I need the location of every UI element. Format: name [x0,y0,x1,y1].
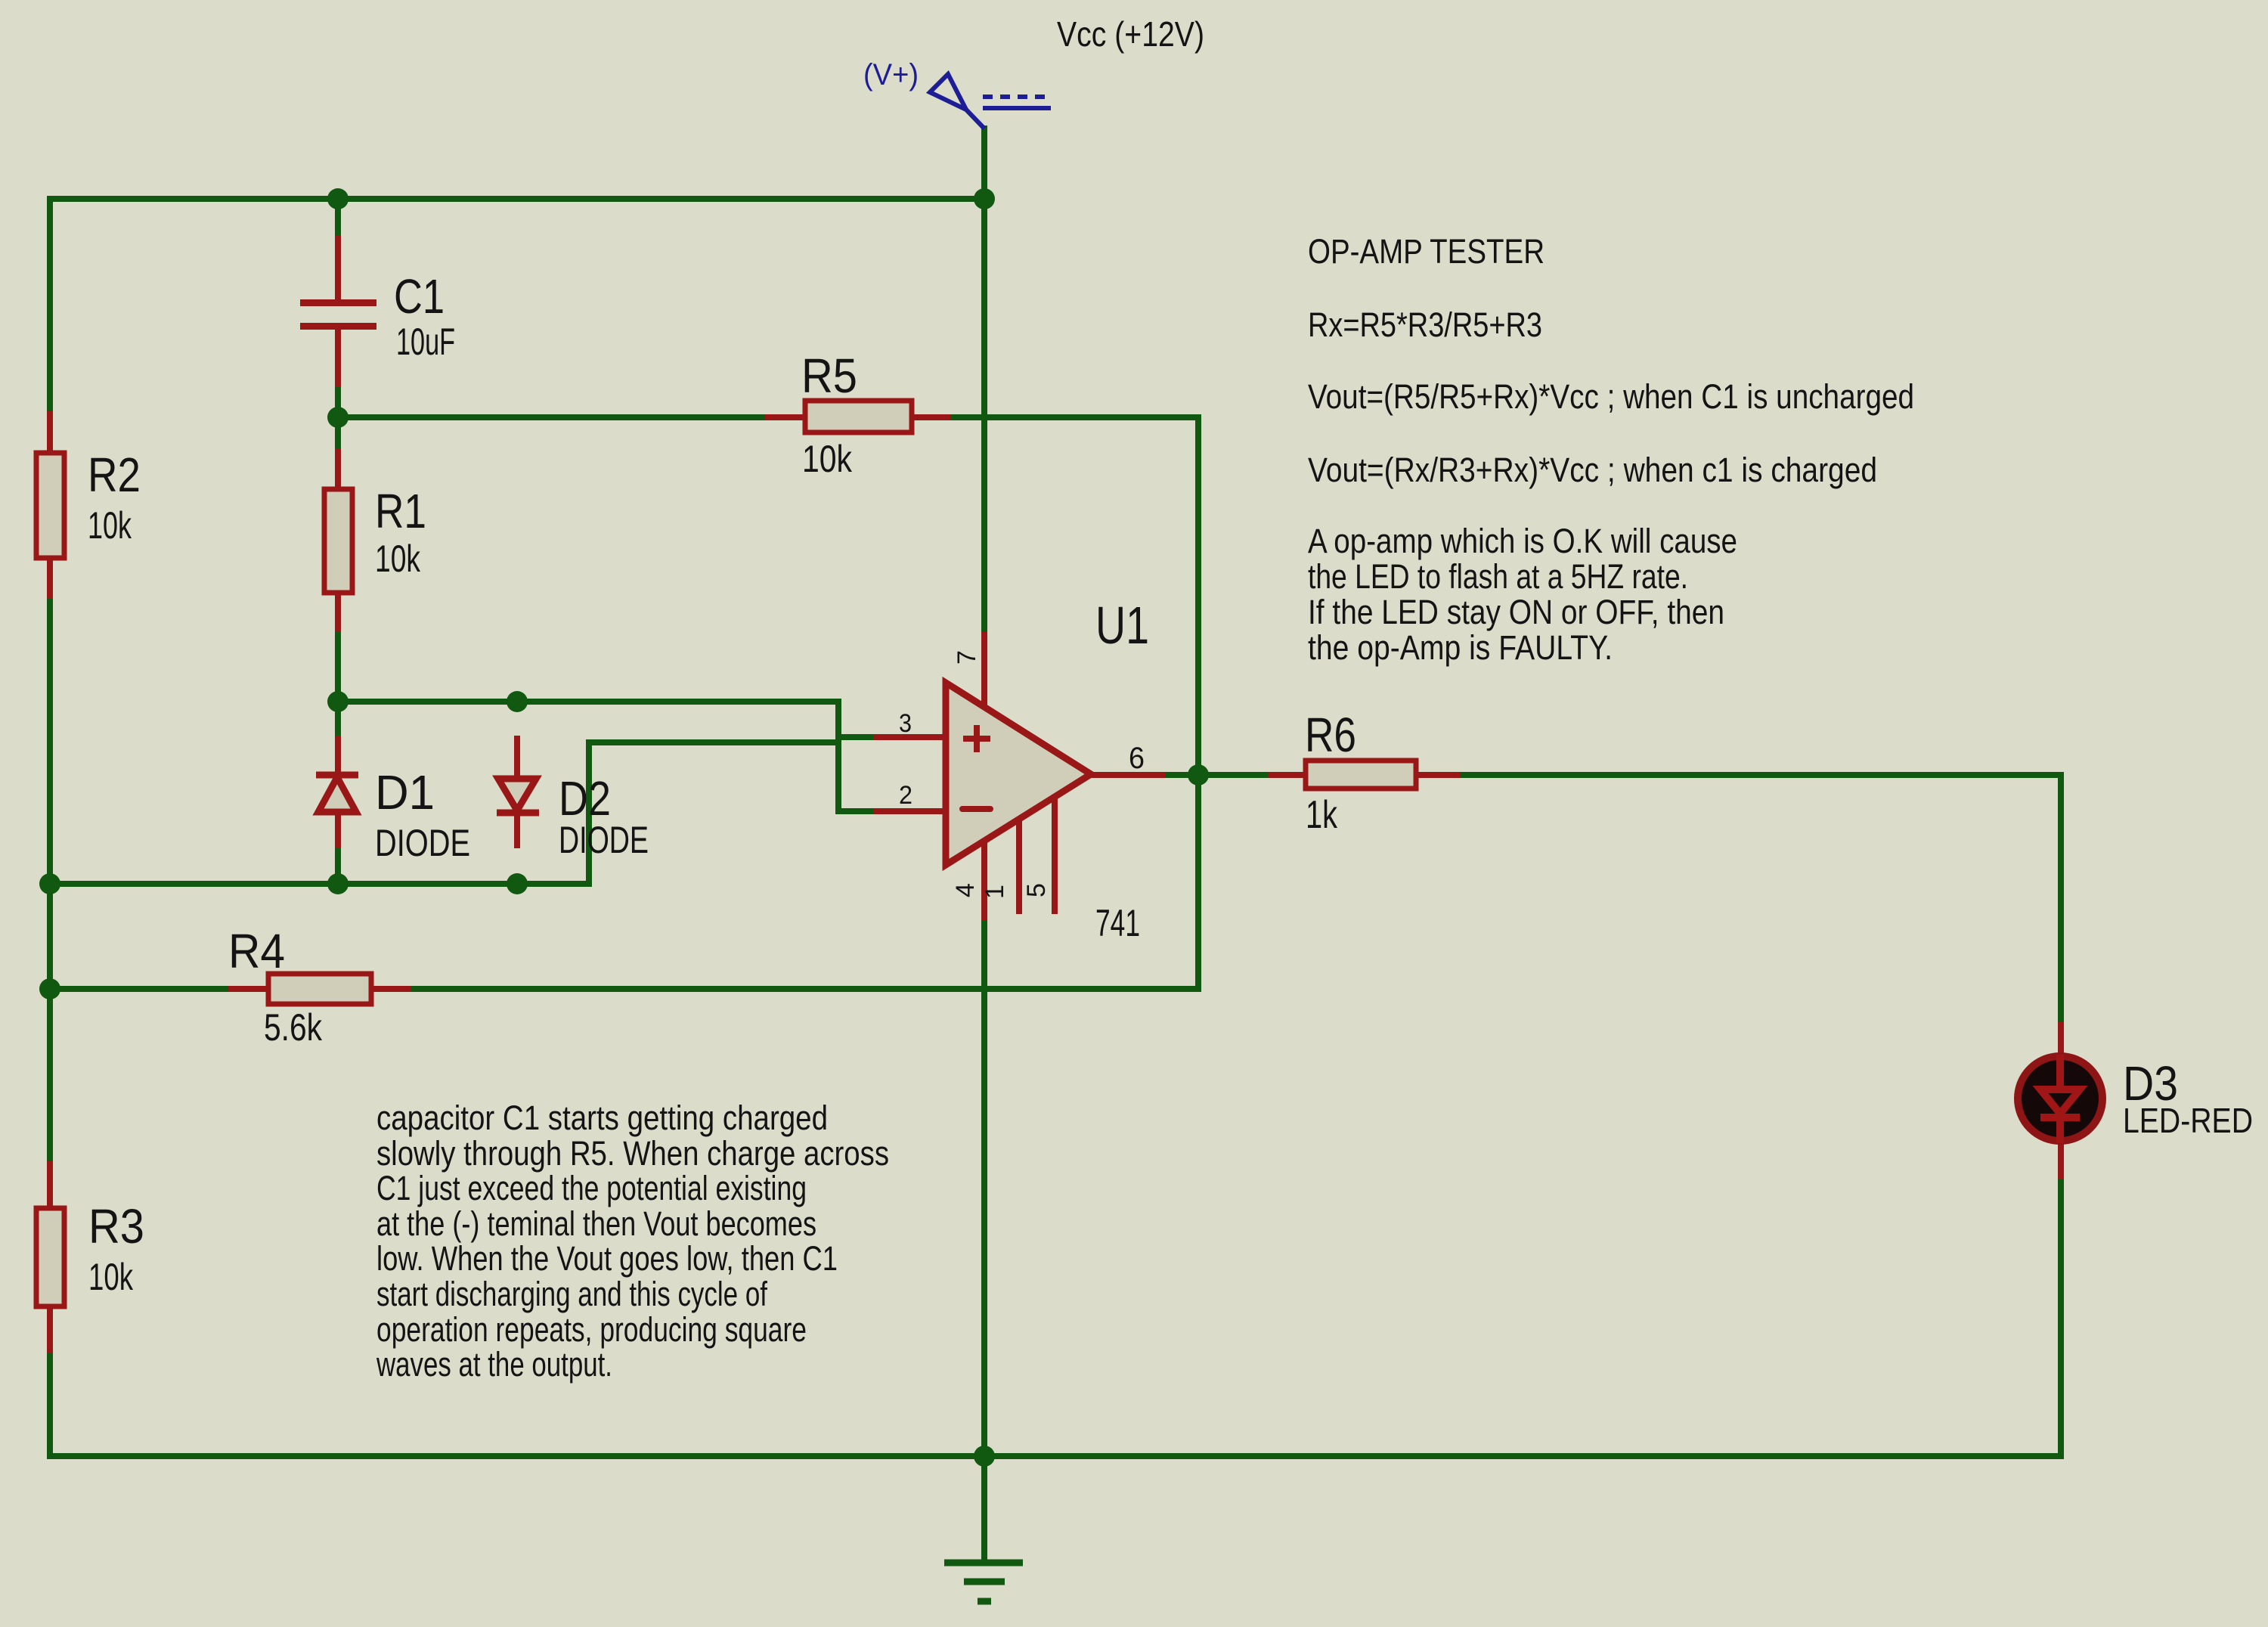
svg-text:R3: R3 [88,1199,144,1254]
svg-text:LED-RED: LED-RED [2123,1101,2253,1140]
node D1 bottom junction [327,873,349,894]
op-amp pin 7 lead [981,632,987,709]
power symbol (V+) [930,74,1052,129]
svg-text:2: 2 [899,781,912,810]
svg-text:3: 3 [899,709,912,738]
resistor R2 bottom lead [47,556,53,599]
svg-text:5.6k: 5.6k [264,1006,323,1049]
svg-text:A op-amp which is O.K will cau: A op-amp which is O.K will cause [1308,522,1737,560]
node left bottom junction [39,873,60,894]
svg-text:D2: D2 [559,771,611,826]
svg-text:6: 6 [1129,742,1145,775]
svg-text:capacitor C1 starts getting ch: capacitor C1 starts getting charged [376,1099,828,1137]
wire R4 row [50,986,1198,992]
svg-text:7: 7 [953,650,981,665]
wire bottom rail [50,1453,2061,1459]
svg-text:slowly through R5. When charge: slowly through R5. When charge across [376,1134,889,1173]
wire inverting input vertical [586,742,592,884]
note text block left [376,1099,889,1384]
diode D1 bottom lead [335,812,341,848]
svg-text:low. When the Vout goes low, t: low. When the Vout goes low, then C1 [376,1239,838,1278]
svg-text:10k: 10k [802,438,853,480]
op-amp pin 2 lead [873,808,946,814]
resistor R1 bottom lead [335,592,341,632]
PIN LEADS (red) [50,235,2061,1353]
svg-text:5: 5 [1022,883,1051,897]
wire D-top horizontal [338,699,838,705]
node C1 top junction [327,188,349,209]
resistor R6 right lead [1415,772,1460,778]
svg-text:Vcc (+12V): Vcc (+12V) [1057,14,1204,54]
resistor R6 left lead [1268,772,1307,778]
resistor R2 [36,453,64,558]
op-amp pin 6 lead [1091,772,1165,778]
op-amp pin 1 lead [1016,820,1022,914]
resistor R5 left lead [765,414,806,420]
LED D3 bottom lead [2058,1140,2064,1179]
capacitor C1 [300,299,376,330]
op-amp pin 4 lead [981,839,987,921]
resistor R5 right lead [911,414,950,420]
resistor R3 top lead [47,1161,53,1209]
wire feedback vertical [1195,417,1201,989]
wire bottom-left horizontal [50,881,589,887]
resistor R4 left lead [228,986,269,992]
resistor R3 [36,1208,64,1306]
wire top horizontal Vcc rail [50,196,984,202]
wire left vertical (R2/R3 branch) [47,199,53,1456]
wire C1/R1/D1 column [335,199,341,884]
svg-text:R2: R2 [88,448,141,502]
svg-text:DIODE: DIODE [559,819,649,861]
note text block right [1308,232,1914,667]
resistor R2 top lead [47,411,53,454]
diode D1 top lead [335,736,341,773]
resistor R5 [805,401,912,432]
svg-text:U1: U1 [1095,596,1149,655]
diode D2 top lead [514,736,520,779]
capacitor C1 top lead [335,235,341,301]
diode D2 [497,779,539,813]
node ground junction [974,1446,995,1467]
svg-text:R1: R1 [375,484,426,538]
svg-text:R5: R5 [801,349,857,403]
diode D2 bottom lead [514,813,520,848]
svg-text:D1: D1 [375,765,435,820]
svg-text:OP-AMP TESTER: OP-AMP TESTER [1308,232,1545,271]
svg-text:start discharging and this cyc: start discharging and this cycle of [376,1275,767,1313]
wire ground stem [981,1456,987,1563]
svg-text:the LED to flash at a 5HZ rate: the LED to flash at a 5HZ rate. [1308,557,1688,596]
svg-text:the op-Amp is FAULTY.: the op-Amp is FAULTY. [1308,628,1613,667]
diode D1 [316,775,358,812]
wire pin2 stub [838,808,875,814]
resistor R4 [268,974,371,1004]
node R5/R1 junction [327,407,349,428]
svg-text:741: 741 [1095,902,1140,944]
node R4 junction [39,978,60,999]
node D2 top junction [507,691,528,712]
svg-text:10k: 10k [375,538,421,580]
node Vcc junction [974,188,995,209]
ground [944,1563,1023,1601]
wire pin3 stub [838,734,875,740]
svg-text:Vout=(R5/R5+Rx)*Vcc ; when C1: Vout=(R5/R5+Rx)*Vcc ; when C1 is uncharg… [1308,377,1914,416]
resistor R6 [1306,761,1416,789]
LED D3 top lead [2058,1022,2064,1057]
svg-text:DIODE: DIODE [375,822,470,864]
op-amp U1 [946,683,1091,865]
wire vertical to op-amp inputs [835,702,841,811]
wire R5 row [338,414,1198,420]
svg-text:10k: 10k [88,1256,134,1298]
svg-text:1k: 1k [1306,793,1338,837]
resistor R3 bottom lead [47,1306,53,1353]
svg-text:4: 4 [951,883,980,897]
svg-text:R4: R4 [228,924,285,978]
svg-text:Vout=(Rx/R3+Rx)*Vcc ; when c1: Vout=(Rx/R3+Rx)*Vcc ; when c1 is charged [1308,451,1877,489]
svg-text:(V+): (V+) [863,58,919,91]
svg-text:10uF: 10uF [396,321,455,363]
svg-text:waves at the output.: waves at the output. [376,1345,612,1384]
resistor R4 right lead [370,986,411,992]
capacitor C1 bottom lead [335,328,341,387]
wire LED column [2058,775,2064,1456]
svg-text:10k: 10k [88,504,132,547]
resistor R1 [324,489,352,593]
svg-text:R6: R6 [1305,708,1356,762]
node output junction [1188,764,1209,786]
svg-text:Rx=R5*R3/R5+R3: Rx=R5*R3/R5+R3 [1308,305,1542,344]
LED D3 [2018,1055,2102,1143]
svg-text:at the (-) teminal then Vout b: at the (-) teminal then Vout becomes [376,1204,816,1243]
wire Vcc vertical to opamp and ground [981,129,987,1456]
op-amp pin 5 lead [1052,798,1058,914]
svg-text:1: 1 [981,885,1009,899]
resistor R1 top lead [335,449,341,490]
svg-text:If the LED stay ON or OFF, the: If the LED stay ON or OFF, then [1308,593,1724,631]
svg-text:C1: C1 [394,269,445,324]
svg-text:C1 just exceed the potential e: C1 just exceed the potential existing [376,1169,807,1207]
svg-text:operation repeats, producing s: operation repeats, producing square [376,1310,807,1349]
op-amp pin 3 lead [873,734,946,740]
wire inverting input horizontal [589,739,838,745]
node R1/D1 junction [327,691,349,712]
wire output row [1165,772,2061,778]
node D2 bottom junction [507,873,528,894]
